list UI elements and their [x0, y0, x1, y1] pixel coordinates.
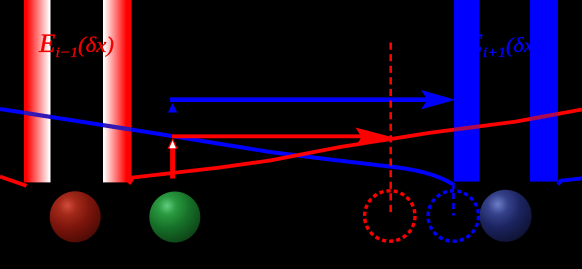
level line blue (diagonal): [0, 109, 453, 184]
sphere red: [50, 191, 101, 242]
level line blue right stub: [558, 178, 582, 185]
arrow white/red vertical: [170, 146, 175, 179]
waveguide bar blue right: [530, 0, 558, 182]
arrow red horizontal: [172, 134, 371, 138]
waveguide bar red left: [24, 0, 51, 182]
sphere blue: [480, 190, 532, 242]
level line red (diagonal): [129, 110, 582, 184]
dashed red circle: [365, 191, 415, 241]
sphere green: [149, 192, 200, 243]
dashed blue vertical line: [452, 183, 455, 216]
level line blue over red bars (blend): [0, 109, 453, 184]
arrow blue vertical: [171, 111, 174, 136]
arrow blue horizontal: [170, 97, 444, 102]
level line red left stub: [0, 177, 27, 186]
dashed blue circle: [428, 191, 478, 241]
level line red over blue bars (blend): [129, 110, 582, 184]
dashed red vertical line: [389, 43, 392, 217]
waveguide bar red right: [103, 0, 132, 182]
waveguide bar blue left: [454, 0, 480, 182]
